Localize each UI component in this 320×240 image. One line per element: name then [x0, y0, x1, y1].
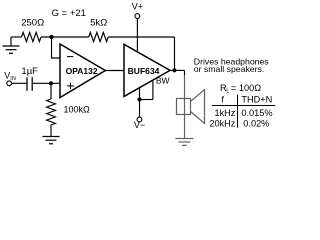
svg-text:BUF634: BUF634	[128, 66, 160, 76]
svg-text:OPA132: OPA132	[66, 66, 98, 76]
svg-text:0.015%: 0.015%	[241, 108, 272, 118]
svg-text:V+: V+	[132, 1, 143, 11]
svg-text:V−: V−	[134, 120, 145, 130]
svg-text:G = +21: G = +21	[52, 8, 86, 19]
svg-text:20kHz: 20kHz	[209, 118, 235, 128]
svg-text:5kΩ: 5kΩ	[90, 17, 107, 28]
svg-text:IN: IN	[10, 76, 16, 82]
svg-text:1µF: 1µF	[21, 66, 38, 77]
svg-text:250Ω: 250Ω	[21, 17, 44, 28]
svg-text:f: f	[221, 94, 224, 104]
svg-text:BW: BW	[156, 75, 170, 85]
svg-text:= 100Ω: = 100Ω	[231, 83, 261, 93]
svg-text:1kHz: 1kHz	[214, 108, 235, 118]
svg-text:0.02%: 0.02%	[243, 118, 269, 128]
svg-text:100kΩ: 100kΩ	[64, 105, 91, 115]
svg-text:THD+N: THD+N	[241, 94, 272, 104]
svg-text:or small speakers.: or small speakers.	[194, 64, 264, 74]
